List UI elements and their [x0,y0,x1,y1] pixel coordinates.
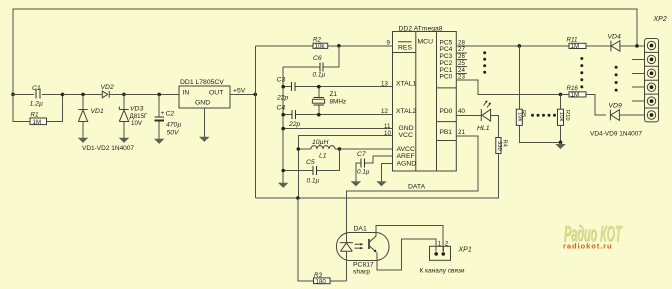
svg-text:0.1µ: 0.1µ [357,169,370,176]
svg-text:L1: L1 [319,153,327,160]
svg-text:C6: C6 [313,55,322,62]
node: L1 left (VCC line) [297,147,301,151]
ground (AGND) [377,182,386,186]
svg-text:DATA: DATA [408,184,426,191]
svg-text:PB1: PB1 [440,129,453,136]
capacitor C5 [283,149,339,185]
svg-text:10k: 10k [517,112,523,121]
svg-text:C1: C1 [32,85,41,92]
MCU DD2 ATmega8 [393,26,457,172]
node: +5V rail junction [254,93,258,97]
node: VD1 tap [81,93,85,97]
svg-text:10k: 10k [558,112,564,121]
svg-text:+5V: +5V [233,88,246,95]
wire: VD3 node to C2 node [124,93,179,95]
svg-text:180: 180 [316,278,327,285]
svg-text:C3: C3 [277,77,286,84]
wire: DA1 collector to XP1 pin2 [376,226,443,252]
svg-text:AREF: AREF [397,153,415,160]
svg-text:OUT: OUT [209,90,223,97]
svg-text:R10: R10 [564,110,570,121]
svg-text:40: 40 [458,108,465,115]
svg-text:0.1µ: 0.1µ [313,72,326,79]
wire: DD1 GND pin [203,108,205,137]
svg-text:AGND: AGND [397,160,417,167]
svg-text:VD4-VD9 1N4007: VD4-VD9 1N4007 [590,131,642,138]
wire: XP2 pin5 stub [632,100,645,102]
svg-text:VD3: VD3 [130,106,143,113]
svg-text:VD1: VD1 [91,108,104,115]
resistor R1 [13,94,63,125]
wire: PC4 stub [456,52,467,54]
ellipsis dots: repeated diodes VD5-VD8 [615,66,618,92]
capacitor C4 [277,105,393,129]
node: pin11 on GND bus [281,127,285,131]
logo: Радио КОТ [564,221,623,247]
node: Z1 top on XTAL1 [317,85,321,89]
svg-text:C5: C5 [306,159,315,166]
svg-text:C4: C4 [277,105,286,112]
svg-text:GND: GND [195,100,210,107]
svg-text:50V: 50V [167,130,181,137]
inductor L1 (10µH) [298,139,392,160]
svg-text:MCU: MCU [418,39,434,46]
svg-text:330: 330 [496,141,502,151]
ground (VD1) [79,138,88,142]
wire: +5V vertical rail [254,46,256,198]
ellipsis dots: repeated PC pin stubs [483,51,486,74]
node: VD3 tap [122,93,126,97]
svg-text:C7: C7 [357,151,366,158]
svg-text:22p: 22p [288,121,301,128]
diode VD4 [608,34,645,52]
svg-text:VD2: VD2 [101,84,114,91]
ground (C2) [155,139,164,143]
svg-text:1: 1 [438,241,442,248]
svg-text:470µ: 470µ [166,122,181,129]
wire: AGND to ground [382,163,393,181]
svg-text:10V: 10V [131,120,143,127]
wire: VCC pin 10 down to +5V bottom rail [298,136,392,198]
wire: GND pin 11 [283,128,392,130]
node A: left input junction [11,93,15,97]
svg-text:11: 11 [384,123,391,130]
svg-text:AVCC: AVCC [397,146,415,153]
node: +5V bottom rail / R3 branch junction [296,196,300,200]
node: C5 on GND bus [281,169,285,173]
svg-text:PD0: PD0 [440,108,453,115]
svg-text:XTAL1: XTAL1 [396,81,416,88]
svg-text:21: 21 [458,129,465,136]
svg-text:R1: R1 [31,112,39,119]
node: XP2 pin1 junction with top loop [635,44,639,48]
wire: PC3 stub [456,59,467,61]
capacitor C3 [276,77,393,102]
wire: PC0 pin23 route to R16 [456,80,569,94]
ellipsis dots: repeated pulldown resistors R6-R9 [531,114,556,117]
crystal Z1 8MHz [312,87,346,115]
svg-text:1.2µ: 1.2µ [30,101,43,108]
capacitor C7 [356,151,393,182]
svg-text:DA1: DA1 [354,226,367,233]
zener diode VD3 (Д815Г 10V) [119,94,148,138]
svg-text:XTAL2: XTAL2 [396,108,416,115]
resistor R16 (1M) [567,85,607,115]
svg-text:XP1: XP1 [458,247,472,254]
voltage regulator DD1 L7805CV [179,79,230,108]
svg-text:2: 2 [445,241,449,248]
svg-text:XP2: XP2 [653,16,667,23]
svg-text:22p: 22p [276,95,289,102]
svg-text:VD9: VD9 [609,103,622,110]
node: C3 on GND bus [281,85,285,89]
svg-text:IN: IN [183,90,190,97]
svg-text:10: 10 [384,130,391,137]
capacitor C1 [13,85,63,108]
wire: DA1 emitter to XP1 pin1 [377,239,436,270]
wire: PC1 stub [456,72,467,74]
resistor R11 (1M) [567,37,612,50]
wire: DD1 OUT to +5V rail [230,93,255,95]
wire: XP2 pin3 stub [632,72,645,74]
diode VD9 [609,103,645,121]
node: C4 on GND bus [281,113,285,117]
node: RES/C6 junction [337,44,341,48]
svg-text:VD4: VD4 [608,34,621,41]
resistor R2 [255,37,392,50]
capacitor C6 [283,46,339,79]
wire: XP2 pin2 stub [632,58,645,60]
wire: PC5 pin28 row to R11 [456,45,569,47]
svg-text:radiokot.ru: radiokot.ru [563,242,613,251]
node: L1 right (AVCC) [338,147,342,151]
connector XP2 [645,16,667,122]
svg-text:23: 23 [458,74,465,81]
wire: PB1 pin21 to DATA line [346,136,478,232]
node: Z1 bottom on XTAL2 [317,113,321,117]
svg-text:Z1: Z1 [330,91,338,98]
resistor R5 (10k pulldown, vertical) [516,46,560,142]
optocoupler DA1 PC817 [337,226,390,282]
capacitor C2 (electrolytic 470µ 50V) [155,94,182,139]
node: R10 top tap on pin23 net [559,93,563,97]
node: R5 top tap on pin28 net [518,44,522,48]
ground (pulldown rail) [556,144,565,148]
svg-text:13: 13 [381,80,388,87]
svg-text:GND: GND [399,125,414,132]
svg-text:DD1 L7805CV: DD1 L7805CV [180,79,224,86]
wire: GND bus vertical at x283 [282,67,284,183]
diode VD2 [101,84,125,98]
ground (DD1) [200,137,209,141]
resistor R4 (330, vertical) [255,138,507,199]
svg-text:Д815Г: Д815Г [130,113,149,120]
resistor R10 (10k pulldown, vertical) [558,94,571,142]
svg-text:+: + [161,110,165,117]
svg-text:К каналу связи: К каналу связи [420,268,465,275]
wire: PC2 stub [456,66,467,68]
wire: main AC line to VD1 node [63,93,103,95]
ground (GND bus) [279,183,288,187]
LED HL1 [456,101,498,138]
node: C1/R1 right junction [61,93,65,97]
svg-text:9: 9 [387,40,391,47]
svg-text:1M: 1M [33,119,42,126]
svg-text:0.1µ: 0.1µ [307,178,320,185]
svg-text:10k: 10k [315,43,326,50]
svg-text:RES: RES [398,45,412,52]
wire: AC input top loop from left input up across top and down to XP2 pin1 node [13,9,637,94]
ground (VD3) [120,138,129,142]
ground (C7/AREF) [351,182,360,186]
svg-text:C2: C2 [166,111,175,118]
svg-text:10µH: 10µH [312,139,328,146]
node: pulldown ground rail junction [559,141,563,145]
ellipsis dots: repeated resistor rows R12-R15 [580,57,583,88]
svg-text:HL1: HL1 [477,125,490,132]
svg-text:VD1-VD2 1N4007: VD1-VD2 1N4007 [82,145,134,152]
svg-text:sharp: sharp [353,269,370,276]
diode VD1 [78,94,104,138]
svg-text:12: 12 [381,108,388,115]
svg-text:VCC: VCC [399,132,413,139]
wire: XP2 pin4 stub [632,86,645,88]
resistor R3 (180) [298,198,347,285]
node: C2 tap [157,93,161,97]
svg-text:1M: 1M [571,43,580,50]
connector XP1 [430,241,472,261]
svg-text:1M: 1M [571,91,580,98]
svg-text:PC0: PC0 [440,74,453,81]
svg-text:PC817: PC817 [353,262,374,269]
svg-text:8MHz: 8MHz [330,99,347,106]
